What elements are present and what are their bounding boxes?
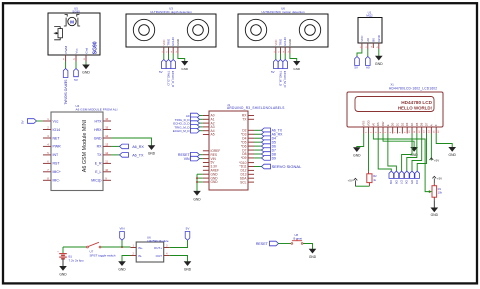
svg-text:PWR: PWR	[53, 145, 62, 149]
port A6_RX	[254, 132, 283, 137]
pin 3 LM2596	[164, 244, 170, 247]
pin 1 U4	[43, 117, 51, 121]
svg-text:HELLO WORLD!: HELLO WORLD!	[398, 106, 433, 111]
port 5V	[20, 119, 43, 124]
pin TX J1	[248, 118, 254, 120]
port D6	[405, 171, 410, 184]
svg-text:3: 3	[47, 134, 49, 138]
svg-text:GND: GND	[309, 255, 317, 259]
wire	[62, 259, 64, 267]
pin 4 U3	[176, 47, 178, 54]
svg-text:ECHO: ECHO	[171, 36, 175, 45]
svg-text:D5: D5	[410, 180, 414, 184]
svg-text:VDD: VDD	[367, 120, 371, 126]
svg-text:7.2v 2s lipo: 7.2v 2s lipo	[69, 258, 85, 262]
gas sensor U1 MQ2	[358, 10, 382, 43]
pin 11 U4	[103, 160, 111, 164]
pin 7 X1	[393, 127, 397, 134]
wire	[75, 62, 77, 69]
svg-text:1: 1	[133, 244, 135, 247]
wire	[170, 256, 188, 262]
pin 3 U6	[283, 47, 285, 54]
svg-text:+5V: +5V	[434, 158, 439, 162]
svg-text:GND: GND	[449, 153, 457, 157]
pin 16 X1	[436, 127, 440, 134]
svg-text:3: 3	[375, 131, 377, 133]
svg-text:+: +	[57, 250, 59, 253]
wire	[303, 244, 313, 250]
ultrasonic sensor U3	[126, 7, 216, 47]
pin 13 U4	[103, 143, 111, 147]
pin 4 U4	[43, 143, 51, 147]
svg-text:LM2596 Module: LM2596 Module	[147, 239, 169, 243]
ground	[181, 61, 189, 71]
wire	[170, 240, 188, 247]
pin 1 U1	[360, 43, 362, 49]
ground	[193, 191, 201, 201]
port VIN	[119, 227, 124, 241]
svg-text:1: 1	[273, 52, 275, 54]
pin SDA J1	[248, 177, 254, 179]
pin GND J1	[203, 177, 209, 179]
svg-text:MQ2: MQ2	[366, 14, 373, 18]
svg-text:1: 1	[366, 131, 368, 133]
pin 2 U1	[365, 43, 367, 49]
pin *D3 J1	[248, 133, 254, 135]
svg-text:D5: D5	[415, 122, 419, 126]
wire	[279, 243, 292, 245]
svg-text:SCL: SCL	[240, 180, 247, 184]
pin 13 X1	[422, 127, 426, 134]
buck converter U6 LM2596	[136, 235, 169, 262]
svg-text:HRX: HRX	[94, 128, 102, 132]
pin 6 U4	[43, 160, 51, 164]
pin 15 X1	[431, 127, 435, 134]
svg-text:GND: GND	[118, 268, 126, 272]
svg-text:8: 8	[400, 131, 402, 133]
pin A2 J1	[203, 122, 209, 124]
port 5V	[159, 60, 166, 75]
port TRIG_M_D	[278, 60, 283, 87]
svg-text:VCC: VCC	[360, 35, 364, 42]
arduino J1	[209, 103, 285, 190]
battery B1	[57, 247, 84, 262]
ground	[82, 65, 90, 75]
svg-text:ECHO: ECHO	[283, 36, 287, 45]
svg-text:1: 1	[360, 47, 362, 49]
svg-text:A: A	[429, 124, 433, 126]
svg-text:GND: GND	[293, 67, 301, 71]
pin 2 U4	[43, 126, 51, 130]
pin 1 U5	[63, 55, 66, 62]
svg-text:A0: A0	[366, 38, 370, 42]
svg-text:RW: RW	[381, 121, 385, 126]
svg-text:E_L: E_L	[95, 170, 101, 174]
port D9	[254, 156, 276, 161]
ground	[353, 148, 361, 158]
svg-text:RESET: RESET	[256, 242, 269, 246]
pin *D9 J1	[248, 157, 254, 159]
pin VIN J1	[203, 158, 209, 160]
svg-text:VIN: VIN	[184, 157, 190, 161]
svg-text:5V: 5V	[20, 120, 24, 124]
svg-text:RX: RX	[97, 145, 103, 149]
pin 2 U6	[278, 47, 280, 54]
svg-text:INT: INT	[53, 153, 60, 157]
svg-text:A6_TX: A6_TX	[132, 154, 144, 158]
svg-text:6: 6	[47, 160, 49, 164]
svg-text:1k: 1k	[373, 178, 376, 182]
svg-text:ECHO_D_D: ECHO_D_D	[171, 71, 175, 88]
wire	[367, 49, 369, 57]
svg-text:D9: D9	[389, 180, 393, 184]
svg-text:VCC: VCC	[162, 39, 166, 45]
svg-text:GND: GND	[176, 39, 180, 45]
pin 15 U4	[103, 126, 111, 130]
port 5V	[185, 227, 190, 241]
pin 4 U1	[376, 43, 378, 49]
svg-text:2: 2	[166, 52, 168, 54]
svg-text:3: 3	[283, 52, 285, 54]
pin 3 U5	[83, 55, 86, 62]
svg-text:5V: 5V	[271, 70, 275, 74]
svg-text:7: 7	[47, 168, 49, 172]
ground	[410, 147, 418, 157]
svg-text:PWM: PWM	[64, 46, 68, 54]
svg-text:5V: 5V	[354, 65, 358, 69]
svg-text:M: M	[70, 19, 74, 24]
port A0	[366, 57, 371, 70]
pin SCL J1	[248, 181, 254, 183]
wire	[197, 174, 203, 191]
svg-text:GND: GND	[431, 213, 439, 217]
port RESET	[178, 152, 203, 157]
wire	[122, 256, 131, 262]
svg-text:E_R: E_R	[95, 162, 102, 166]
svg-text:D6: D6	[420, 122, 424, 126]
svg-text:HD44780 LCD: HD44780 LCD	[401, 100, 432, 105]
pin 16 U4	[103, 117, 111, 121]
svg-text:GND: GND	[375, 62, 383, 66]
switch U7 SPST	[87, 242, 116, 257]
pin 1 LM2596	[131, 244, 137, 247]
svg-text:13: 13	[424, 130, 426, 133]
wire	[436, 134, 452, 148]
svg-text:HD44780LCD-1602_LCD1602: HD44780LCD-1602_LCD1602	[389, 86, 437, 90]
port A6_RX	[120, 144, 145, 149]
svg-text:7: 7	[395, 131, 397, 133]
ground	[431, 208, 439, 217]
pin 5 X1	[383, 127, 387, 134]
svg-text:D7: D7	[400, 180, 404, 184]
pin D8 J1	[248, 153, 254, 155]
wire	[355, 185, 369, 187]
svg-text:ECHO_M_D: ECHO_M_D	[173, 129, 191, 133]
svg-text:NET: NET	[53, 136, 61, 140]
svg-text:TX: TX	[242, 118, 247, 122]
wire	[378, 49, 380, 56]
LCD display X1 HD44780	[347, 82, 443, 127]
svg-text:RST: RST	[53, 162, 61, 166]
pushbutton U8 reset	[291, 233, 303, 244]
wire	[402, 134, 412, 172]
svg-text:R2: R2	[373, 174, 377, 178]
svg-text:6: 6	[390, 131, 392, 133]
ground	[293, 61, 301, 71]
wire	[111, 145, 120, 147]
pin A5 J1	[203, 134, 209, 136]
wire	[111, 154, 120, 156]
svg-text:3: 3	[371, 46, 373, 48]
svg-text:14: 14	[105, 134, 108, 138]
pin GND J1	[203, 173, 209, 175]
svg-text:E: E	[386, 124, 390, 126]
pin A3 J1	[203, 126, 209, 128]
svg-text:13: 13	[105, 143, 108, 147]
svg-text:SERVO SIGNAL: SERVO SIGNAL	[272, 164, 302, 169]
svg-text:5V: 5V	[74, 78, 78, 82]
wire	[163, 54, 165, 60]
svg-text:OUT: OUT	[156, 254, 163, 258]
wire	[280, 54, 282, 60]
svg-text:MIC2p: MIC2p	[91, 179, 101, 183]
port SERVO SIGNAL	[254, 164, 302, 169]
svg-text:4: 4	[376, 47, 378, 49]
ground	[118, 262, 126, 272]
svg-text:A6 GSM Module MINI: A6 GSM Module MINI	[82, 120, 88, 172]
svg-text:Vcc: Vcc	[53, 119, 59, 123]
pin *D5 J1	[248, 141, 254, 143]
port 5V	[354, 57, 359, 70]
pin D12 J1	[248, 169, 254, 171]
port 5V	[271, 60, 278, 75]
power +5V	[429, 158, 439, 162]
svg-text:12: 12	[105, 151, 108, 155]
svg-text:5V: 5V	[186, 227, 190, 231]
svg-text:VCC: VCC	[274, 39, 278, 45]
wire	[172, 54, 174, 60]
port D7	[399, 171, 404, 184]
wire	[101, 246, 131, 248]
pin D4 J1	[248, 137, 254, 139]
svg-text:14: 14	[429, 130, 431, 133]
ground	[309, 249, 317, 259]
svg-text:11: 11	[105, 160, 108, 164]
port D5	[254, 140, 276, 145]
svg-text:RS: RS	[376, 122, 380, 126]
pin 2 U3	[166, 47, 168, 54]
pin 6 X1	[388, 127, 392, 134]
pin A1 J1	[203, 118, 209, 120]
pin 4 U6	[288, 47, 290, 54]
svg-text:10: 10	[409, 130, 411, 133]
svg-text:GND: GND	[181, 67, 189, 71]
pin 3.3V J1	[203, 165, 209, 167]
wire	[85, 62, 87, 65]
ground	[184, 262, 192, 272]
svg-text:D1: D1	[396, 122, 400, 126]
wire	[290, 54, 297, 62]
svg-text:1: 1	[47, 117, 49, 121]
svg-text:3: 3	[83, 59, 85, 61]
ground	[59, 266, 67, 276]
port ECHO_D_D	[173, 121, 203, 126]
svg-text:D2: D2	[400, 122, 404, 126]
svg-text:D8: D8	[394, 180, 398, 184]
svg-text:D4: D4	[415, 180, 419, 184]
svg-text:GND: GND	[82, 71, 90, 75]
svg-text:2: 2	[133, 252, 135, 255]
pin 5V J1	[203, 162, 209, 164]
svg-text:2: 2	[73, 59, 75, 61]
svg-text:VIN: VIN	[119, 227, 124, 231]
pin 2 U5	[73, 55, 76, 62]
port D7	[254, 148, 276, 153]
wire	[417, 134, 426, 172]
port A0	[186, 113, 203, 118]
pin 3 U4	[43, 134, 51, 138]
svg-text:4: 4	[380, 131, 382, 133]
wire	[357, 134, 364, 148]
svg-text:10k: 10k	[438, 191, 443, 195]
port D4	[415, 171, 420, 184]
svg-text:12: 12	[419, 130, 421, 133]
port A6_TX	[254, 128, 283, 133]
ground	[148, 146, 156, 156]
svg-text:1: 1	[161, 52, 163, 54]
pin 11 X1	[412, 127, 416, 134]
pin *D11 J1	[248, 166, 254, 168]
junction	[196, 177, 198, 183]
svg-text:GND: GND	[184, 268, 192, 272]
svg-text:4: 4	[47, 143, 49, 147]
svg-text:GND: GND	[148, 152, 156, 156]
svg-text:GND: GND	[353, 153, 361, 157]
pin 2 X1	[369, 127, 373, 134]
svg-text:4: 4	[288, 52, 290, 54]
pin 8 X1	[398, 127, 402, 134]
svg-text:SG90: SG90	[72, 9, 80, 13]
svg-text:TRIG: TRIG	[167, 38, 171, 46]
pin *D10 J1	[248, 162, 254, 164]
resistor R1 potentiometer	[432, 183, 443, 200]
svg-text:SPST toggle switch: SPST toggle switch	[90, 253, 116, 257]
svg-text:U8: U8	[295, 233, 299, 237]
port ECHO_M_D	[283, 60, 288, 89]
pin 9 X1	[402, 127, 406, 134]
wire	[284, 54, 286, 60]
svg-text:GND: GND	[59, 272, 67, 276]
pin 10 U4	[103, 168, 111, 172]
ground	[375, 56, 383, 66]
svg-text:GND: GND	[94, 136, 102, 140]
svg-text:GND: GND	[288, 39, 292, 45]
svg-text:GND: GND	[193, 198, 201, 202]
svg-text:SERVO SIGNAL: SERVO SIGNAL	[63, 80, 67, 105]
wire	[275, 54, 277, 60]
pin GND J1	[203, 181, 209, 183]
port D9	[389, 171, 394, 184]
svg-text:*D9: *D9	[241, 156, 247, 160]
svg-text:3: 3	[166, 244, 168, 247]
svg-text:9: 9	[105, 176, 107, 180]
svg-text:ARDUINO_R3_SHIELDNOLABELS: ARDUINO_R3_SHIELDNOLABELS	[227, 106, 285, 110]
wire	[388, 134, 397, 172]
wire	[357, 49, 362, 57]
port RESET	[256, 241, 279, 246]
svg-text:TRIG: TRIG	[279, 38, 283, 46]
pin 3 U3	[171, 47, 173, 54]
svg-text:SG90: SG90	[92, 41, 98, 54]
pin 3 U1	[371, 43, 373, 48]
port TRIG_M_D	[174, 125, 202, 130]
svg-text:D7: D7	[425, 122, 429, 126]
wire	[63, 246, 87, 248]
svg-text:D6: D6	[405, 180, 409, 184]
power +5V	[432, 176, 442, 183]
pin 2 LM2596	[131, 252, 137, 255]
svg-text:Vcc: Vcc	[74, 48, 78, 54]
GSM module U4 A6	[51, 104, 118, 191]
svg-text:GND: GND	[211, 180, 219, 184]
svg-text:2: 2	[371, 131, 373, 133]
wire	[378, 134, 391, 172]
wire	[111, 138, 152, 146]
svg-text:16: 16	[438, 130, 440, 133]
port D5	[410, 171, 415, 184]
svg-text:MIC-: MIC-	[53, 179, 61, 183]
svg-text:2: 2	[365, 47, 367, 49]
pin *D6 J1	[248, 145, 254, 147]
svg-text:D4: D4	[410, 122, 414, 126]
pin 1 U3	[161, 47, 163, 54]
port D8	[394, 171, 399, 184]
pin AREF J1	[203, 169, 209, 171]
svg-text:9: 9	[404, 131, 406, 133]
wire	[383, 134, 414, 148]
svg-text:3: 3	[171, 52, 173, 54]
port TRIG_D_D	[166, 60, 171, 87]
svg-text:TRIG_M_D: TRIG_M_D	[278, 71, 282, 87]
wire	[433, 200, 435, 208]
pin A0 J1	[203, 115, 209, 117]
svg-text:ECHO_M_D: ECHO_M_D	[283, 71, 287, 89]
svg-text:A6_RX: A6_RX	[132, 145, 144, 149]
svg-text:4: 4	[166, 252, 168, 255]
svg-text:OUT+: OUT+	[154, 246, 162, 250]
wire	[373, 134, 431, 193]
port SERVO SIGNAL	[63, 69, 68, 105]
servo motor U5 SG90	[48, 6, 100, 55]
svg-text:MIC+: MIC+	[53, 170, 61, 174]
ground	[449, 147, 457, 157]
svg-text:K: K	[434, 124, 438, 126]
pin 10 X1	[407, 127, 411, 134]
svg-text:2: 2	[278, 52, 280, 54]
svg-text:A0: A0	[366, 65, 370, 69]
svg-text:IO14: IO14	[53, 128, 61, 132]
svg-text:15: 15	[105, 126, 108, 130]
svg-text:D3: D3	[405, 122, 409, 126]
resistor R2	[367, 174, 377, 186]
svg-text:A6 GSM MODULE FROM ALI: A6 GSM MODULE FROM ALI	[76, 107, 118, 111]
pin 14 U4	[103, 134, 111, 138]
pin RES J1	[203, 154, 209, 156]
svg-text:TRIG_D_D: TRIG_D_D	[166, 71, 170, 87]
pin IOREF J1	[203, 150, 209, 152]
pin 3 X1	[373, 127, 377, 134]
svg-text:+5V: +5V	[348, 179, 353, 183]
